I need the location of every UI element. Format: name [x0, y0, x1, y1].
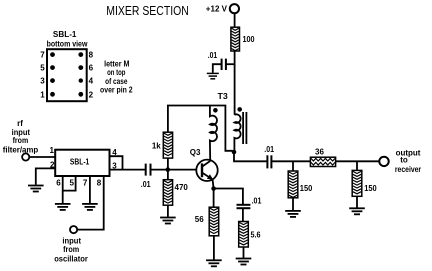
ground 150a: [285, 211, 301, 217]
ground 56: [206, 260, 222, 266]
wire pin 7 to ground: [89, 176, 91, 203]
wire cap to base node: [151, 169, 197, 171]
svg-text:.01: .01: [264, 145, 274, 154]
svg-text:T3: T3: [218, 92, 229, 101]
svg-text:3: 3: [40, 77, 45, 86]
svg-text:SBL-1: SBL-1: [53, 30, 77, 39]
svg-text:filter/amp: filter/amp: [3, 146, 39, 155]
svg-text:470: 470: [175, 183, 189, 192]
capacitor .01 output coupling: [266, 155, 268, 168]
pin dot 3: [50, 78, 55, 83]
mixer U1 SBL-1 box: [55, 150, 109, 176]
svg-text:letter M: letter M: [104, 59, 130, 68]
wire 150a tap: [292, 161, 294, 171]
wire pin 2 to ground: [36, 168, 55, 184]
svg-text:from: from: [63, 245, 79, 254]
wire base node to 470: [167, 170, 169, 180]
ground pins 5,6: [55, 204, 71, 210]
svg-text:1k: 1k: [152, 141, 161, 150]
resistor 36: [310, 157, 335, 166]
phase dot primary: [213, 108, 218, 113]
capacitor .01 base coupling: [145, 164, 147, 176]
svg-text:receiver: receiver: [395, 165, 421, 174]
resistor 470: [163, 180, 172, 206]
node base junction: [166, 167, 171, 172]
transformer T3 secondary winding: [234, 114, 240, 150]
wire emitter node to bypass cap: [214, 189, 243, 205]
svg-text:to: to: [400, 156, 408, 165]
resistor 100: [231, 27, 240, 51]
resistor 1k: [163, 132, 172, 158]
pin dot 1: [50, 92, 55, 97]
ground supply decoupling: [207, 73, 219, 78]
svg-text:2: 2: [89, 90, 94, 99]
ground 5.6: [236, 259, 252, 265]
pin dot 4: [79, 78, 83, 82]
svg-text:over pin 2: over pin 2: [100, 85, 133, 94]
wire T3 to output cap: [234, 152, 267, 161]
capacitor .01 emitter bypass: [237, 204, 251, 206]
pin dot 5: [50, 65, 55, 70]
svg-text:4: 4: [89, 77, 94, 86]
resistor 56: [209, 207, 219, 236]
svg-text:Q3: Q3: [190, 148, 201, 157]
svg-text:5: 5: [40, 64, 45, 73]
wire output cap to 36: [272, 160, 311, 162]
svg-text:from: from: [13, 136, 29, 145]
terminal output: [379, 157, 388, 166]
svg-text:.01: .01: [141, 180, 151, 189]
svg-text:150: 150: [300, 184, 313, 193]
svg-text:+12 V: +12 V: [206, 5, 228, 14]
wire 150b to ground: [356, 196, 358, 207]
ground 470: [160, 218, 176, 224]
svg-text:150: 150: [364, 184, 377, 193]
svg-text:56: 56: [195, 215, 204, 224]
svg-text:6: 6: [56, 179, 61, 188]
svg-text:SBL-1: SBL-1: [70, 157, 90, 166]
wire rf input to pin 1: [29, 156, 55, 158]
wire Q3 emitter to emitter node: [213, 180, 214, 189]
wire 470 to ground: [167, 205, 169, 217]
ground 150b: [349, 208, 365, 214]
resistor 150 second: [352, 170, 362, 196]
wire +12V to 100: [234, 13, 236, 27]
svg-text:bottom view: bottom view: [47, 39, 88, 48]
svg-text:.01: .01: [252, 197, 262, 206]
node T3 output junction: [232, 150, 237, 155]
wire 5.6 to ground: [243, 247, 245, 258]
resistor 150 first: [288, 171, 298, 198]
terminal rf input: [22, 153, 29, 160]
svg-text:oscillator: oscillator: [54, 254, 88, 263]
wire pin 4 jumper to pin 3: [110, 156, 123, 169]
wire 100 to T3: [234, 51, 236, 115]
pin dot 2: [78, 92, 83, 97]
pin dot 7: [50, 52, 55, 57]
transistor Q3: [190, 148, 218, 181]
svg-text:6: 6: [89, 64, 94, 73]
wire 36 to output terminal: [336, 160, 380, 162]
wire pin 8 to oscillator input: [77, 176, 103, 230]
svg-text:MIXER SECTION: MIXER SECTION: [106, 3, 189, 18]
wire 1k bottom to base node: [167, 158, 169, 170]
svg-text:rf: rf: [17, 119, 23, 128]
pin dot 8: [78, 52, 83, 57]
wire 150a to ground: [292, 198, 294, 210]
phase dot secondary: [237, 107, 242, 112]
pin dot 6: [78, 65, 83, 70]
wire pins 5,6 joined to ground: [63, 176, 76, 203]
SBL-1 bottom view package outline: [47, 49, 87, 101]
ground pin 2: [28, 186, 44, 192]
transformer core: [242, 112, 244, 144]
wire emitter node to 56: [213, 189, 215, 208]
terminal +12 V: [230, 4, 239, 13]
svg-text:5: 5: [69, 179, 74, 188]
svg-text:36: 36: [315, 147, 324, 156]
wire 56 to ground: [213, 236, 215, 260]
wire feedback link top: [168, 106, 233, 151]
svg-text:1: 1: [50, 146, 55, 155]
wire 150b tap: [356, 161, 358, 170]
svg-text:8: 8: [97, 179, 102, 188]
svg-text:7: 7: [83, 179, 88, 188]
ground pin 7: [82, 204, 98, 210]
node emitter junction: [211, 186, 216, 191]
wire bypass cap to 5.6: [242, 208, 244, 221]
svg-text:on top: on top: [107, 68, 125, 77]
svg-text:8: 8: [89, 51, 94, 60]
svg-text:1: 1: [40, 90, 45, 99]
resistor 5.6: [239, 222, 249, 248]
wire pin 3 to coupling cap: [110, 169, 146, 171]
svg-text:5.6: 5.6: [251, 230, 261, 239]
svg-text:100: 100: [243, 35, 256, 44]
terminal oscillator input: [70, 226, 77, 233]
svg-text:.01: .01: [208, 51, 218, 60]
capacitor .01 supply decoupling: [208, 51, 235, 73]
svg-text:7: 7: [40, 51, 45, 60]
transformer T3 primary winding: [210, 106, 217, 160]
